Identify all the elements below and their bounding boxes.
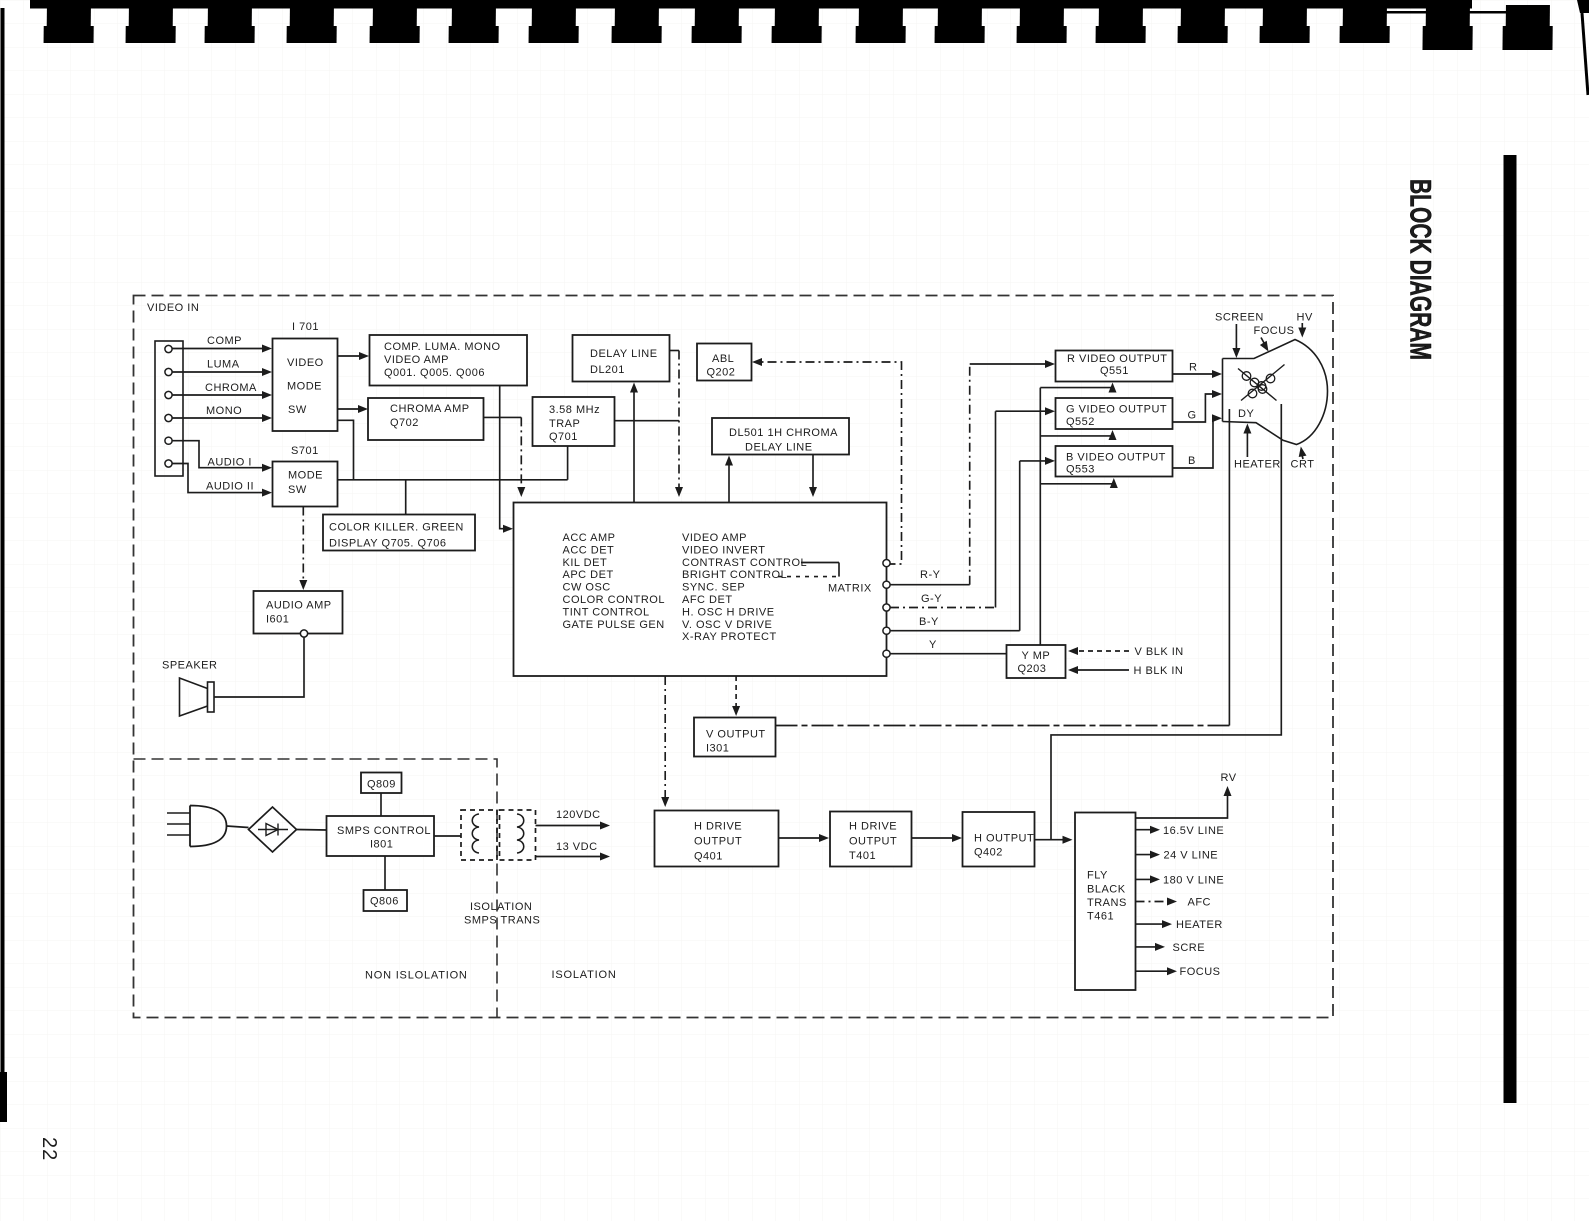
wire SMPS to transformer	[434, 835, 461, 837]
svg-text:VIDEO: VIDEO	[287, 357, 324, 369]
svg-text:MONO: MONO	[206, 405, 242, 417]
svg-text:H OUTPUT: H OUTPUT	[974, 833, 1034, 845]
svg-text:ABL: ABL	[712, 353, 734, 365]
svg-text:MATRIX: MATRIX	[828, 583, 872, 595]
wire jungle to delay line DL201	[630, 383, 638, 503]
wire Y bus from Y MP	[1039, 388, 1041, 645]
node G-Y out	[883, 604, 890, 611]
wire H BLK IN	[1068, 665, 1183, 677]
wire mode sw to audio amp	[299, 507, 307, 591]
wire 16.5V LINE	[1136, 825, 1225, 837]
svg-text:OUTPUT: OUTPUT	[694, 836, 742, 848]
wire trap bottom to bus	[567, 446, 569, 480]
block Q806	[364, 890, 408, 911]
wire audio amp to speaker	[214, 637, 304, 697]
wire Y feed to G output	[1040, 430, 1116, 440]
svg-text:VIDEO AMP: VIDEO AMP	[384, 354, 449, 366]
wire G-Y to G video output	[890, 407, 1055, 607]
block SMPS CONTROL I801	[327, 816, 435, 856]
block COMP LUMA MONO VIDEO AMP Q001 Q005 Q006	[370, 335, 528, 386]
wire 120VDC	[536, 809, 611, 830]
svg-text:DY: DY	[1238, 408, 1254, 420]
wire SCRE	[1136, 942, 1206, 954]
wire Y feed to B output	[1040, 478, 1118, 488]
wire jungle to H drive	[661, 676, 669, 807]
svg-text:22: 22	[38, 1137, 60, 1161]
svg-text:CHROMA: CHROMA	[205, 382, 257, 394]
svg-text:Q701: Q701	[549, 431, 578, 443]
label CRT with arrow	[1291, 447, 1315, 471]
block COLOR KILLER GREEN DISPLAY Q705 Q706	[323, 515, 475, 551]
wire B-Y to B video output	[890, 457, 1055, 631]
svg-text:FOCUS: FOCUS	[1180, 966, 1221, 978]
svg-text:FLY: FLY	[1087, 870, 1108, 882]
block DL501 1H CHROMA DELAY LINE	[712, 418, 849, 455]
wire LUMA input	[172, 359, 272, 377]
block Q809	[361, 773, 402, 794]
svg-text:Y: Y	[929, 639, 937, 651]
wire contrast control bracket	[778, 563, 839, 577]
wire mode sw to trap bus	[338, 479, 568, 481]
svg-text:SMPS CONTROL: SMPS CONTROL	[337, 825, 431, 837]
wire video sw to chroma amp	[338, 405, 369, 413]
svg-text:KIL DET: KIL DET	[563, 557, 608, 569]
svg-text:Q552: Q552	[1066, 416, 1095, 428]
svg-text:I801: I801	[370, 839, 393, 851]
svg-text:Q551: Q551	[1100, 365, 1129, 377]
inner dashed frame non-isolation area	[134, 759, 498, 1018]
svg-text:ACC DET: ACC DET	[563, 544, 615, 556]
svg-text:T401: T401	[849, 850, 876, 862]
svg-text:T461: T461	[1087, 911, 1114, 923]
wire video sw to video amp	[338, 352, 370, 360]
label NON ISLOLATION	[365, 970, 468, 982]
label ISOLATION SMPS TRANS	[464, 901, 540, 927]
svg-text:180 V LINE: 180 V LINE	[1163, 875, 1224, 887]
svg-text:AUDIO I: AUDIO I	[208, 457, 252, 469]
block ABL Q202	[697, 344, 752, 381]
svg-text:B-Y: B-Y	[919, 616, 939, 628]
block H OUTPUT Q402	[963, 812, 1035, 867]
svg-text:120VDC: 120VDC	[556, 809, 601, 821]
wire Y feed to R output	[1040, 383, 1116, 393]
svg-text:TRANS: TRANS	[1087, 897, 1127, 909]
svg-text:13 VDC: 13 VDC	[556, 841, 598, 853]
block DELAY LINE DL201	[573, 335, 670, 382]
wire video sw lower output	[338, 420, 354, 480]
wire T401 to Q402	[912, 834, 963, 842]
svg-text:X-RAY PROTECT: X-RAY PROTECT	[682, 631, 777, 643]
svg-text:16.5V LINE: 16.5V LINE	[1163, 825, 1224, 837]
svg-text:DISPLAY Q705. Q706: DISPLAY Q705. Q706	[329, 538, 446, 550]
label SCREEN with arrow	[1215, 312, 1264, 359]
AC plug	[167, 806, 227, 847]
svg-text:COMP: COMP	[207, 335, 242, 347]
svg-text:GATE PULSE GEN: GATE PULSE GEN	[563, 619, 665, 631]
svg-text:G: G	[1188, 410, 1197, 422]
label HV with arrow	[1297, 312, 1313, 338]
label FOCUS with arrow	[1254, 325, 1295, 352]
wire Q402 to flyback	[1035, 836, 1073, 844]
svg-text:TINT CONTROL: TINT CONTROL	[563, 606, 650, 618]
svg-text:H DRIVE: H DRIVE	[694, 821, 742, 833]
bridge rectifier D801	[249, 807, 297, 852]
svg-text:CW OSC: CW OSC	[563, 582, 611, 594]
svg-text:ACC AMP: ACC AMP	[563, 532, 616, 544]
svg-text:HV: HV	[1297, 312, 1313, 324]
svg-text:VIDEO IN: VIDEO IN	[147, 302, 199, 314]
node R-Y out	[883, 581, 890, 588]
svg-text:TRAP: TRAP	[549, 418, 580, 430]
wire AFC	[1136, 897, 1212, 909]
svg-text:COLOR CONTROL: COLOR CONTROL	[563, 594, 665, 606]
wire DL501 output to jungle	[809, 455, 817, 498]
svg-text:DL201: DL201	[590, 364, 625, 376]
wire trap output	[615, 420, 679, 422]
wire branch to color killer	[405, 480, 407, 515]
svg-text:BRIGHT CONTROL: BRIGHT CONTROL	[682, 569, 787, 581]
wire V output to DY	[776, 409, 1230, 726]
svg-text:Q809: Q809	[367, 779, 396, 791]
block AUDIO AMP I601	[254, 591, 343, 634]
svg-text:ISOLATION: ISOLATION	[552, 969, 617, 981]
label DY	[1238, 408, 1254, 420]
svg-text:VIDEO INVERT: VIDEO INVERT	[682, 544, 765, 556]
page left edge	[0, 8, 7, 1122]
svg-text:VIDEO AMP: VIDEO AMP	[682, 532, 747, 544]
svg-text:DL501 1H CHROMA: DL501 1H CHROMA	[729, 427, 838, 439]
svg-text:BLACK: BLACK	[1087, 884, 1126, 896]
svg-text:R: R	[1189, 362, 1197, 374]
svg-text:SW: SW	[288, 484, 307, 496]
wire Q401 to T401	[779, 834, 830, 842]
svg-text:SYNC. SEP: SYNC. SEP	[682, 582, 745, 594]
svg-text:SCREEN: SCREEN	[1215, 312, 1264, 324]
wire SMPS to Q806	[384, 856, 386, 890]
wire R to CRT	[1173, 362, 1223, 379]
svg-text:Q401: Q401	[694, 851, 723, 863]
wire video amp to jungle left	[500, 386, 513, 533]
block VIDEO MODE SW I701	[273, 321, 338, 431]
svg-text:B VIDEO OUTPUT: B VIDEO OUTPUT	[1066, 452, 1166, 464]
svg-text:APC DET: APC DET	[563, 569, 614, 581]
wire rectifier to SMPS control	[297, 829, 327, 832]
svg-text:Q402: Q402	[974, 847, 1003, 859]
svg-text:H DRIVE: H DRIVE	[849, 821, 897, 833]
wire contrast node to ABL	[752, 358, 902, 564]
wire Y to Y MP	[890, 639, 1006, 654]
svg-text:MODE: MODE	[288, 470, 323, 482]
block FLY BLACK TRANS T461	[1075, 813, 1136, 991]
page number 22	[38, 1137, 60, 1161]
svg-text:Q203: Q203	[1018, 663, 1047, 675]
wire COMP input	[172, 335, 272, 353]
deflection yoke DY coils	[1238, 365, 1285, 401]
wire RV output	[1136, 772, 1237, 818]
wire V BLK IN	[1068, 646, 1184, 658]
svg-text:DELAY LINE: DELAY LINE	[590, 348, 658, 360]
isolation SMPS transformer T801 primary	[461, 810, 497, 860]
svg-text:R-Y: R-Y	[920, 569, 941, 581]
block V OUTPUT I301	[694, 718, 776, 757]
title BLOCK DIAGRAM	[1404, 179, 1437, 360]
svg-text:Q553: Q553	[1066, 464, 1095, 476]
svg-text:SMPS TRANS: SMPS TRANS	[464, 915, 540, 927]
svg-text:SW: SW	[288, 404, 307, 416]
block 3.58 MHz TRAP Q701	[533, 397, 615, 446]
node Y out	[883, 650, 890, 657]
svg-text:Y MP: Y MP	[1022, 650, 1051, 662]
CRT picture tube	[1223, 340, 1328, 445]
svg-text:SPEAKER: SPEAKER	[162, 660, 217, 672]
svg-text:I301: I301	[706, 743, 729, 755]
wire jungle to V output	[732, 676, 740, 716]
wire G to CRT	[1173, 390, 1223, 422]
svg-text:V OUTPUT: V OUTPUT	[706, 729, 766, 741]
svg-text:V BLK IN: V BLK IN	[1135, 646, 1184, 658]
svg-text:24 V LINE: 24 V LINE	[1164, 850, 1219, 862]
svg-text:HEATER: HEATER	[1234, 459, 1281, 471]
wire delay line output to jungle	[670, 351, 684, 498]
svg-text:B: B	[1188, 455, 1196, 467]
wire Q809 to SMPS	[380, 793, 382, 816]
svg-text:Q202: Q202	[707, 367, 736, 379]
wire plug to rectifier	[227, 826, 249, 828]
wire H output to CRT anode	[1051, 404, 1281, 840]
svg-text:CHROMA AMP: CHROMA AMP	[390, 403, 470, 415]
wire FOCUS out	[1136, 966, 1221, 978]
label VIDEO IN	[147, 302, 199, 314]
wire chroma amp to jungle top	[484, 417, 526, 497]
wire HEATER out	[1136, 919, 1223, 931]
wire AUDIO I input	[172, 441, 272, 472]
block MODE SW S701	[273, 445, 338, 507]
svg-text:COLOR KILLER. GREEN: COLOR KILLER. GREEN	[329, 522, 464, 534]
wire CHROMA input	[172, 382, 272, 399]
svg-text:BLOCK DIAGRAM: BLOCK DIAGRAM	[1404, 179, 1437, 360]
svg-text:AFC: AFC	[1188, 897, 1212, 909]
node B-Y out	[883, 627, 890, 634]
wire MONO input	[172, 405, 272, 422]
svg-text:LUMA: LUMA	[207, 359, 240, 371]
wire 13 VDC	[536, 841, 611, 861]
svg-text:I601: I601	[266, 614, 289, 626]
wire 24 V LINE	[1136, 850, 1219, 862]
block B VIDEO OUTPUT Q553	[1056, 446, 1173, 477]
svg-text:R VIDEO OUTPUT: R VIDEO OUTPUT	[1067, 353, 1168, 365]
input connector J1	[155, 341, 183, 476]
svg-text:COMP. LUMA. MONO: COMP. LUMA. MONO	[384, 341, 501, 353]
svg-text:MODE: MODE	[287, 381, 322, 393]
speaker	[162, 660, 217, 717]
svg-text:H BLK IN: H BLK IN	[1134, 665, 1184, 677]
svg-text:G VIDEO OUTPUT: G VIDEO OUTPUT	[1066, 404, 1167, 416]
svg-text:I 701: I 701	[292, 321, 319, 333]
svg-text:G-Y: G-Y	[921, 593, 942, 605]
svg-text:CONTRAST CONTROL: CONTRAST CONTROL	[682, 557, 807, 569]
label ISOLATION	[552, 969, 617, 981]
block H DRIVE OUTPUT T401	[830, 812, 912, 867]
outer dashed frame	[134, 296, 1334, 1018]
node contrast out	[883, 560, 890, 567]
svg-text:S701: S701	[291, 445, 319, 457]
block R VIDEO OUTPUT Q551	[1056, 351, 1173, 382]
svg-text:V. OSC V DRIVE: V. OSC V DRIVE	[682, 619, 772, 631]
jungle IC main processing block	[514, 503, 887, 677]
svg-text:Q001. Q005. Q006: Q001. Q005. Q006	[384, 367, 485, 379]
right side black bar	[1504, 155, 1517, 1103]
wire 180 V LINE	[1136, 875, 1225, 887]
isolation SMPS transformer T801 secondary	[500, 810, 536, 860]
svg-text:SCRE: SCRE	[1173, 942, 1206, 954]
wire AUDIO II input	[172, 464, 272, 497]
block H DRIVE OUTPUT Q401	[655, 811, 779, 867]
svg-text:AUDIO AMP: AUDIO AMP	[266, 600, 332, 612]
block CHROMA AMP Q702	[368, 398, 484, 440]
label HEATER with arrow	[1234, 424, 1281, 471]
svg-text:Q806: Q806	[370, 896, 399, 908]
block Y MP Q203	[1007, 645, 1066, 678]
wire B to CRT	[1173, 414, 1223, 468]
wire R-Y to R video output	[890, 360, 1055, 585]
svg-text:HEATER: HEATER	[1176, 919, 1223, 931]
svg-text:DELAY LINE: DELAY LINE	[745, 442, 813, 454]
block G VIDEO OUTPUT Q552	[1056, 398, 1173, 429]
svg-text:3.58 MHz: 3.58 MHz	[549, 404, 600, 416]
svg-text:AUDIO II: AUDIO II	[206, 481, 254, 493]
label MATRIX	[828, 583, 872, 595]
svg-text:NON ISLOLATION: NON ISLOLATION	[365, 970, 468, 982]
spiral binding comb top	[30, 0, 1589, 95]
svg-text:CRT: CRT	[1291, 459, 1315, 471]
svg-text:RV: RV	[1221, 772, 1237, 784]
svg-text:OUTPUT: OUTPUT	[849, 836, 897, 848]
node audio amp output	[300, 630, 307, 637]
svg-text:ISOLATION: ISOLATION	[470, 901, 532, 913]
svg-text:H. OSC H DRIVE: H. OSC H DRIVE	[682, 606, 775, 618]
svg-text:AFC DET: AFC DET	[682, 594, 733, 606]
wire jungle to DL501	[725, 456, 733, 503]
svg-text:Q702: Q702	[390, 417, 419, 429]
svg-text:FOCUS: FOCUS	[1254, 325, 1295, 337]
